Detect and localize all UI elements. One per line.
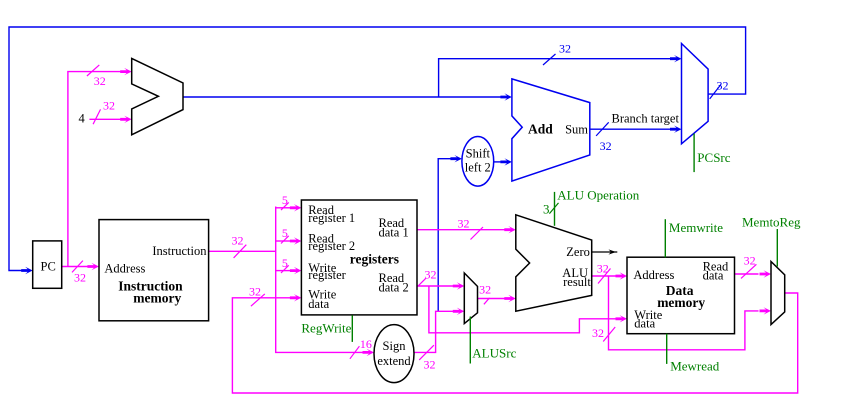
label 32 on constant 4 wire [93,109,100,124]
svg-text:32: 32 [592,326,604,340]
label 32 on read data [741,264,756,278]
label 32 on ALUSrc mux output [484,298,490,304]
wire PC+4 branch up to PCSrc mux input 0 [439,59,671,97]
svg-text:RegWrite: RegWrite [301,321,351,336]
sign extend ellipse [374,325,414,383]
svg-text:Zero: Zero [566,245,590,259]
svg-text:32: 32 [744,254,756,268]
svg-text:register 2: register 2 [308,239,355,253]
svg-text:32: 32 [559,42,571,56]
wire ALUSrc mux output to ALU input 2 [478,298,506,300]
svg-text:memory: memory [133,291,181,306]
control PCSrc [693,134,695,173]
wire instruction to write register [276,270,291,272]
wire PC+4 adder output to Add input 1 [183,96,502,98]
svg-text:32: 32 [424,358,436,372]
wire sign extend output up to ALUSrc mux input 1 [414,311,454,352]
wire branch target: Add Sum output to PCSrc mux input 1 [590,128,671,130]
svg-text:32: 32 [479,282,491,296]
svg-text:registers: registers [350,251,399,266]
label 32 on instruction wire [234,245,247,258]
svg-text:Sum: Sum [565,122,588,136]
label 32 on write data wire [603,327,615,342]
mux PCSrc [682,44,709,144]
svg-text:Shift: Shift [466,146,491,160]
label 16 on sign extend input [350,346,360,359]
wire instruction output and distribution column [209,250,276,252]
wire pc-src mux output feedback to top bus and down into PC [9,27,746,271]
label 32 on writeback wire [251,294,265,306]
svg-text:Address: Address [104,261,145,275]
svg-text:32: 32 [597,262,609,276]
wire read data 1 to ALU input 1 [417,229,505,231]
wire sign-extend column up to shift left 2 [438,159,451,312]
svg-text:ALU Operation: ALU Operation [557,188,639,203]
wire instruction to read register 1 [276,207,291,209]
label 3 on ALU operation [549,203,558,214]
wire Zero output [592,251,618,253]
label 32 on read data 2 [418,278,426,286]
svg-text:data: data [703,269,724,283]
label 5 read register 1 [281,202,289,210]
control RegWrite [351,315,353,342]
svg-text:4: 4 [79,112,86,126]
svg-text:32: 32 [600,139,612,153]
label 32 on ALU result [598,269,611,284]
svg-text:32: 32 [94,74,106,88]
wire read data 2 branch down to data memory write data [429,286,616,333]
control MemtoReg [776,229,778,267]
svg-text:left 2: left 2 [465,160,491,174]
control Memwrite [664,219,666,257]
svg-text:Add: Add [528,121,553,136]
registers box [301,200,417,315]
svg-text:32: 32 [458,216,470,230]
svg-text:32: 32 [103,99,115,113]
svg-text:3: 3 [543,202,550,217]
instruction memory box [99,220,209,321]
label 32 on PCSrc mux output [710,85,721,99]
svg-text:data 1: data 1 [379,226,409,240]
label 32 on PC+4 adder input 1 [87,65,99,76]
svg-text:Sign: Sign [383,339,407,353]
adder Add (branch target) [512,79,590,181]
svg-text:Instruction: Instruction [152,244,207,258]
svg-text:32: 32 [425,267,437,281]
wire PC output to instruction memory Address with branch up to PC+4 adder [62,266,88,268]
svg-text:Address: Address [633,268,674,282]
control ALUSrc [469,317,471,364]
wire ALU result branch down to MemtoReg mux input 1 [609,276,759,350]
label 32 on PC output [72,261,83,273]
svg-text:data 2: data 2 [379,281,409,295]
svg-text:5: 5 [282,193,288,207]
svg-text:Mewread: Mewread [670,358,720,373]
svg-text:extend: extend [377,354,411,368]
svg-text:data: data [634,317,655,331]
svg-text:32: 32 [232,234,244,248]
svg-text:16: 16 [360,337,372,351]
svg-text:register 1: register 1 [308,211,355,225]
wire read data 2 to ALUSrc mux input 0 [417,285,454,287]
control ALU Operation [554,192,556,226]
mux MemtoReg [771,262,785,325]
PC register box [33,241,62,288]
svg-text:32: 32 [717,79,729,93]
svg-text:ALUSrc: ALUSrc [472,346,516,361]
wire ALU result to data memory Address [592,275,616,277]
label 32 on read data 1 [471,227,484,240]
shift left 2 ellipse [462,137,494,187]
adder PC+4 [132,58,183,134]
label 5 read register 2 [281,236,289,244]
svg-text:Branch target: Branch target [612,112,680,126]
wire MemtoReg mux output writeback to registers write data [232,293,797,393]
svg-text:MemtoReg: MemtoReg [742,215,801,230]
svg-text:result: result [563,275,591,289]
wire constant 4 to PC+4 adder input 2 [89,118,120,120]
wire instruction to read register 2 [276,240,291,242]
mux ALUSrc [464,273,477,324]
data memory box [627,257,735,334]
svg-text:5: 5 [282,226,288,240]
ALU [516,215,592,311]
svg-text:5: 5 [282,256,288,270]
control Mewread [666,334,668,364]
wire shift left 2 output to Add input 2 [494,161,501,163]
label 5 write register [281,265,289,273]
label 32 on PC+4 branch [543,54,556,65]
svg-text:32: 32 [74,271,86,285]
label 32 on sign extend output [419,345,434,360]
svg-text:Memwrite: Memwrite [669,220,723,235]
wire data memory read data to MemtoReg mux input 0 [735,273,759,275]
svg-text:32: 32 [249,285,261,299]
label 32 on branch target wire [596,122,609,136]
svg-text:register: register [308,268,346,282]
svg-text:data: data [308,297,329,311]
svg-text:PC: PC [41,260,56,274]
svg-text:PCSrc: PCSrc [697,150,730,165]
svg-text:memory: memory [657,295,705,310]
